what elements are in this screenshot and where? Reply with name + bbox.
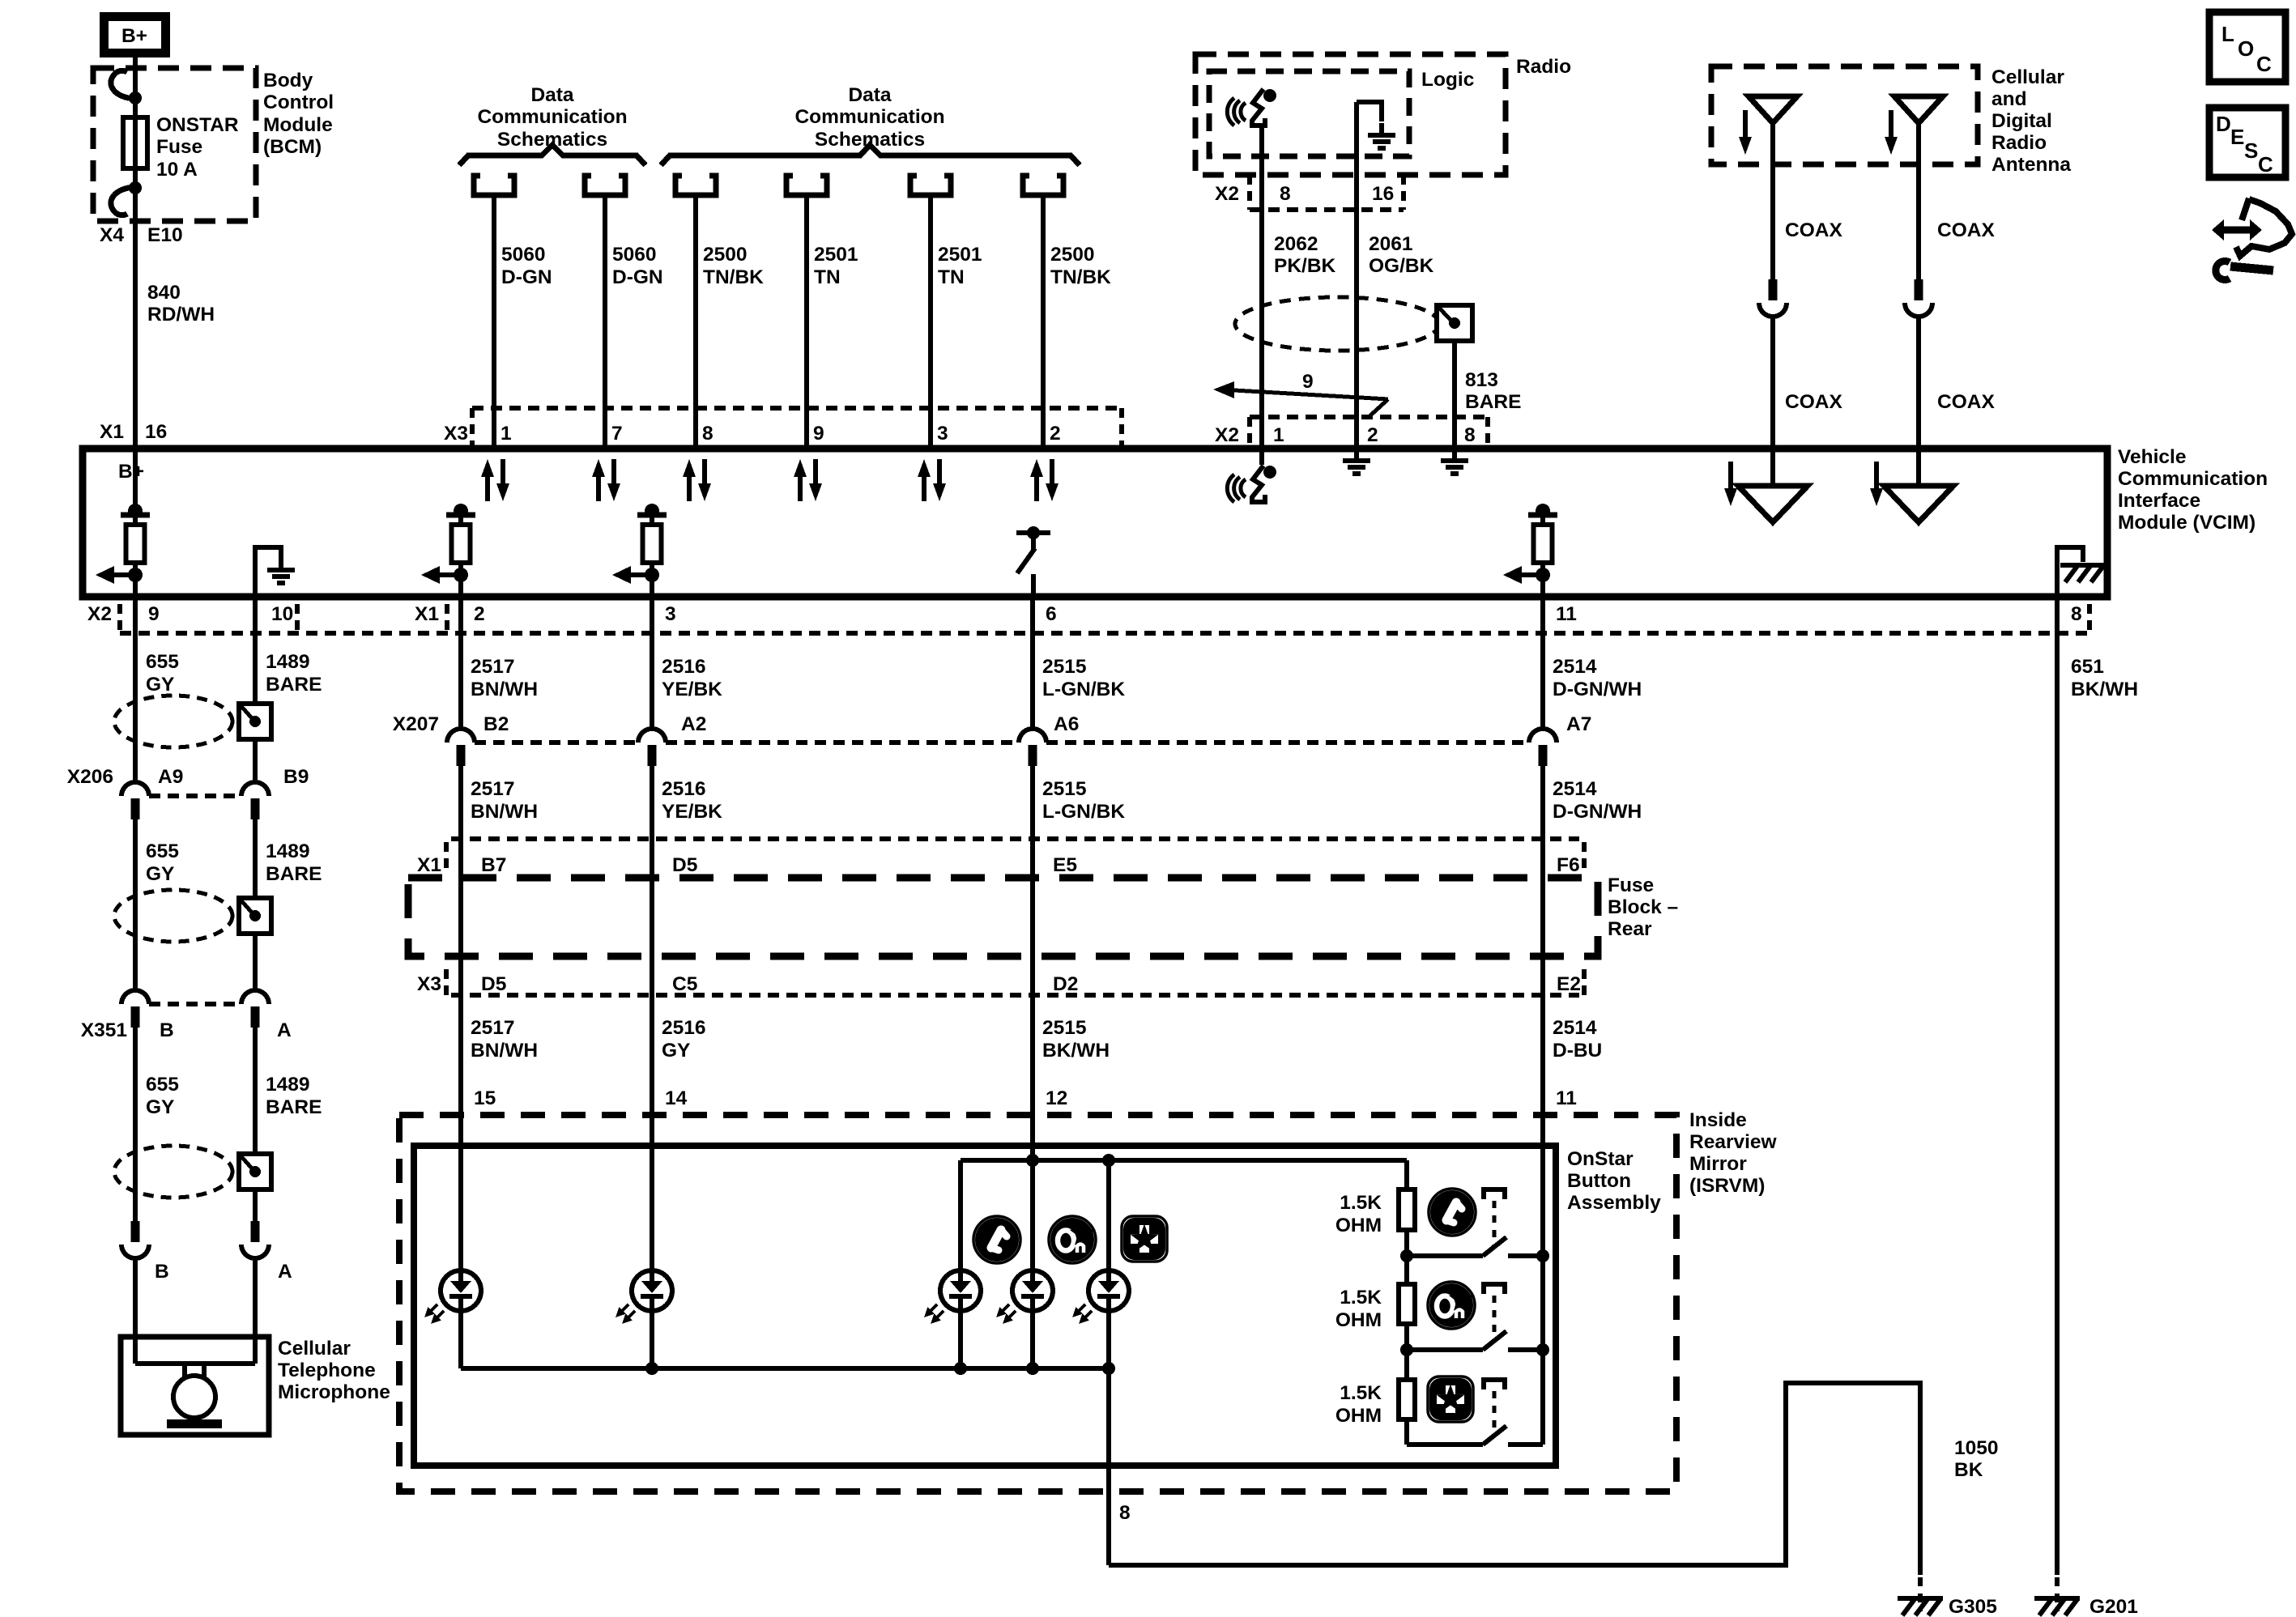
shield with drain 3 xyxy=(114,1146,271,1198)
svg-text:X3: X3 xyxy=(417,973,441,995)
Vehicle Communication Interface Module (VCIM) box xyxy=(83,449,2107,597)
svg-text:BK/WH: BK/WH xyxy=(2071,679,2138,700)
internal resistance with arrow (pin 3 circuit) xyxy=(612,504,667,584)
svg-text:1: 1 xyxy=(1273,424,1284,446)
svg-text:Communication: Communication xyxy=(2118,468,2268,490)
svg-text:GY: GY xyxy=(146,1096,174,1118)
svg-text:9: 9 xyxy=(1302,371,1314,393)
svg-text:8: 8 xyxy=(2071,603,2082,625)
wire 2501 TN (pin 9) xyxy=(804,194,809,449)
svg-text:D5: D5 xyxy=(672,854,697,876)
svg-text:TN/BK: TN/BK xyxy=(1050,266,1111,288)
svg-text:COAX: COAX xyxy=(1937,391,1995,413)
junction above fuse xyxy=(129,91,142,104)
svg-text:Cellular: Cellular xyxy=(278,1338,351,1360)
svg-text:COAX: COAX xyxy=(1785,219,1842,241)
svg-text:2514: 2514 xyxy=(1553,656,1597,678)
inline coax connector 1 xyxy=(1759,279,1787,317)
svg-text:A2: A2 xyxy=(681,713,706,735)
svg-text:GY: GY xyxy=(146,674,174,696)
phone button icon xyxy=(973,1216,1020,1263)
bidirectional arrows CAN 2 xyxy=(1030,459,1059,501)
svg-text:1050: 1050 xyxy=(1954,1437,1999,1459)
bidirectional arrows CAN 8 xyxy=(683,459,711,501)
svg-text:L-GN/BK: L-GN/BK xyxy=(1042,801,1125,823)
svg-text:16: 16 xyxy=(1372,183,1394,205)
svg-text:F6: F6 xyxy=(1557,854,1580,876)
DESC reference box xyxy=(2209,108,2285,177)
svg-text:Body: Body xyxy=(263,70,313,91)
svg-text:10 A: 10 A xyxy=(156,159,198,181)
resistor 1.5K OHM row 3 xyxy=(1399,1380,1415,1419)
wire 2517 BN/WH segment 3 xyxy=(458,995,463,1270)
switch row 3 (emergency) xyxy=(1407,1442,1483,1447)
internal antenna 2 xyxy=(1916,449,1921,486)
svg-text:B7: B7 xyxy=(481,854,506,876)
wire 2501 TN (pin 3) xyxy=(928,194,933,449)
service information icon xyxy=(2212,198,2292,280)
wire 2516 GY segment 3 xyxy=(650,995,654,1270)
svg-text:6: 6 xyxy=(1046,603,1057,625)
svg-text:D: D xyxy=(2216,112,2231,136)
svg-text:1.5K: 1.5K xyxy=(1340,1192,1382,1214)
svg-text:E5: E5 xyxy=(1053,854,1077,876)
ONSTAR Fuse 10 A element xyxy=(123,117,147,168)
svg-text:8: 8 xyxy=(702,423,714,445)
svg-text:C: C xyxy=(2258,152,2273,177)
svg-text:X206: X206 xyxy=(67,766,113,788)
svg-text:9: 9 xyxy=(813,423,824,445)
svg-text:8: 8 xyxy=(1280,183,1291,205)
svg-text:Cellular: Cellular xyxy=(1991,66,2064,88)
svg-text:Data: Data xyxy=(530,84,573,106)
internal chassis ground (pin 8 circuit) xyxy=(2057,547,2083,597)
svg-text:2501: 2501 xyxy=(814,244,858,266)
svg-text:TN/BK: TN/BK xyxy=(703,266,764,288)
svg-text:Digital: Digital xyxy=(1991,110,2052,132)
resistor 1.5K OHM row 1 xyxy=(1399,1189,1415,1230)
wire 655 GY segment 2 xyxy=(133,819,138,990)
svg-text:D-GN: D-GN xyxy=(501,266,552,288)
wire 1489 BARE segment 3 xyxy=(253,1027,258,1221)
svg-text:X1: X1 xyxy=(417,854,441,876)
inline connector X207 xyxy=(475,740,638,745)
microphone lead A xyxy=(253,1258,258,1364)
antenna element 2 xyxy=(1894,96,1943,123)
svg-text:3: 3 xyxy=(665,603,676,625)
microphone symbol inside VCIM xyxy=(1227,466,1276,502)
wire 840 RD/WH to VCIM X1 pin 16 xyxy=(133,224,138,449)
wire 2514 D-BU segment 3 xyxy=(1540,995,1545,1163)
resistor 1.5K OHM row 2 xyxy=(1399,1284,1415,1324)
svg-text:2514: 2514 xyxy=(1553,778,1597,800)
svg-text:BN/WH: BN/WH xyxy=(471,679,538,700)
svg-text:X1: X1 xyxy=(100,421,124,443)
wire 2516 YE/BK segment 1 xyxy=(650,597,654,729)
svg-text:7: 7 xyxy=(611,423,623,445)
svg-text:11: 11 xyxy=(1556,1087,1577,1109)
fuse upper attachment hook xyxy=(111,70,135,99)
fuse block connector X1 boundary xyxy=(451,836,1579,841)
coax 1 lower xyxy=(1770,317,1775,449)
off-page connector CAN 3 xyxy=(910,176,951,195)
svg-text:BK: BK xyxy=(1954,1459,1983,1481)
svg-text:5060: 5060 xyxy=(501,244,546,266)
svg-text:Schematics: Schematics xyxy=(815,129,925,151)
svg-text:2: 2 xyxy=(1050,423,1061,445)
svg-text:A: A xyxy=(278,1261,292,1283)
microphone pigtail connector B xyxy=(121,1221,149,1258)
coax 2 lower xyxy=(1916,317,1921,449)
svg-text:A9: A9 xyxy=(158,766,183,788)
wire 2514 D-GN/WH segment 1 xyxy=(1540,597,1545,729)
svg-text:X4: X4 xyxy=(100,224,124,246)
svg-text:14: 14 xyxy=(665,1087,688,1109)
data communication schematics brace 2 xyxy=(661,145,1080,165)
power symbol B+ box xyxy=(104,17,166,53)
off-page connector CAN 2 xyxy=(786,176,827,195)
svg-text:Rear: Rear xyxy=(1608,918,1652,940)
switch row 1 (phone) xyxy=(1407,1253,1483,1258)
svg-text:1489: 1489 xyxy=(266,651,310,673)
svg-text:Fuse: Fuse xyxy=(1608,874,1654,896)
svg-text:2061: 2061 xyxy=(1369,233,1413,255)
svg-text:Mirror: Mirror xyxy=(1689,1153,1747,1175)
ground lead G305 xyxy=(1918,1577,1923,1611)
svg-text:D2: D2 xyxy=(1053,973,1078,995)
svg-text:X2: X2 xyxy=(87,603,112,625)
ISRVM pin 8 return wire xyxy=(1106,1368,1111,1565)
svg-text:Communication: Communication xyxy=(794,106,944,128)
svg-text:BARE: BARE xyxy=(266,674,322,696)
svg-text:(ISRVM): (ISRVM) xyxy=(1689,1175,1765,1197)
svg-text:Interface: Interface xyxy=(2118,490,2200,512)
microphone lead B xyxy=(133,1258,138,1364)
svg-text:9: 9 xyxy=(148,603,160,625)
svg-text:2515: 2515 xyxy=(1042,656,1087,678)
svg-text:Vehicle: Vehicle xyxy=(2118,446,2186,468)
svg-text:B2: B2 xyxy=(483,713,509,735)
svg-text:2515: 2515 xyxy=(1042,778,1087,800)
svg-text:OG/BK: OG/BK xyxy=(1369,255,1434,277)
svg-text:651: 651 xyxy=(2071,656,2104,678)
svg-text:2517: 2517 xyxy=(471,778,515,800)
Fuse Block - Rear dashed box xyxy=(408,878,1598,956)
Cellular Telephone Microphone box xyxy=(121,1337,269,1435)
bidirectional arrows CAN 9 xyxy=(794,459,822,501)
svg-text:Schematics: Schematics xyxy=(497,129,607,151)
svg-text:C5: C5 xyxy=(672,973,697,995)
svg-text:Radio: Radio xyxy=(1991,132,2047,154)
svg-text:12: 12 xyxy=(1046,1087,1067,1109)
svg-text:2500: 2500 xyxy=(703,244,748,266)
coax 1 upper xyxy=(1770,123,1775,279)
svg-text:D-BU: D-BU xyxy=(1553,1040,1602,1062)
svg-text:1489: 1489 xyxy=(266,840,310,862)
svg-text:X1: X1 xyxy=(415,603,439,625)
svg-text:16: 16 xyxy=(145,421,167,443)
svg-text:840: 840 xyxy=(147,282,181,304)
microphone pigtail connector A xyxy=(241,1221,269,1258)
svg-text:8: 8 xyxy=(1464,424,1476,446)
svg-text:2: 2 xyxy=(1367,424,1378,446)
svg-text:11: 11 xyxy=(1556,603,1577,625)
svg-text:COAX: COAX xyxy=(1937,219,1995,241)
wire 2515 BK/WH segment 3 xyxy=(1030,995,1035,1270)
Inside Rearview Mirror (ISRVM) dashed box xyxy=(399,1115,1676,1491)
internal switch (pin 6 circuit) xyxy=(1016,530,1050,535)
svg-text:BARE: BARE xyxy=(266,863,322,885)
shield drain termination box xyxy=(1437,305,1472,341)
fuse lower attachment hook xyxy=(111,187,135,215)
svg-text:D-GN/WH: D-GN/WH xyxy=(1553,679,1642,700)
svg-text:OHM: OHM xyxy=(1335,1405,1382,1427)
svg-text:X2: X2 xyxy=(1215,183,1239,205)
svg-text:A7: A7 xyxy=(1566,713,1591,735)
svg-text:BARE: BARE xyxy=(1465,391,1521,413)
svg-text:2514: 2514 xyxy=(1553,1017,1597,1039)
LOC reference box xyxy=(2209,12,2285,82)
svg-text:1: 1 xyxy=(501,423,512,445)
wire 1489 BARE segment 1 xyxy=(253,597,258,782)
svg-text:Microphone: Microphone xyxy=(278,1381,390,1403)
Radio dashed box xyxy=(1195,54,1506,175)
svg-text:GY: GY xyxy=(662,1040,690,1062)
svg-text:B: B xyxy=(155,1261,169,1283)
svg-text:D-GN/WH: D-GN/WH xyxy=(1553,801,1642,823)
inline connector X351 xyxy=(149,1002,241,1006)
svg-text:2517: 2517 xyxy=(471,656,515,678)
LED supply bus xyxy=(961,1158,1407,1163)
svg-text:Module: Module xyxy=(263,114,333,136)
svg-text:A6: A6 xyxy=(1054,713,1079,735)
wire 655 GY segment 3 xyxy=(133,1027,138,1221)
svg-text:Logic: Logic xyxy=(1421,69,1474,91)
svg-text:813: 813 xyxy=(1465,369,1498,391)
svg-text:L-GN/BK: L-GN/BK xyxy=(1042,679,1125,700)
VCIM connector X3 boundary xyxy=(472,406,1122,411)
wire 1489 BARE segment 2 xyxy=(253,819,258,990)
resistor ladder feed xyxy=(1404,1160,1409,1189)
internal ground (pin 10 circuit) xyxy=(255,547,281,597)
wire 2517 BN/WH segment 1 xyxy=(458,597,463,729)
Body Control Module (BCM) dashed box xyxy=(93,68,256,221)
VCIM connector X2 boundary (radio side) xyxy=(1250,415,1488,419)
svg-text:G305: G305 xyxy=(1949,1596,1997,1617)
svg-text:Radio: Radio xyxy=(1516,56,1571,78)
svg-text:OHM: OHM xyxy=(1335,1309,1382,1331)
LED indicator 2 xyxy=(616,1270,672,1324)
svg-text:1489: 1489 xyxy=(266,1074,310,1096)
svg-text:X2: X2 xyxy=(1215,424,1239,446)
internal ground (X2 pin 8) xyxy=(1441,449,1468,474)
LED indicator 4 branch xyxy=(1030,1160,1035,1270)
svg-text:B9: B9 xyxy=(283,766,309,788)
svg-text:D5: D5 xyxy=(481,973,506,995)
wire 2516 YE/BK segment 2 xyxy=(650,766,654,995)
svg-text:GY: GY xyxy=(146,863,174,885)
svg-text:OHM: OHM xyxy=(1335,1215,1382,1236)
svg-text:Rearview: Rearview xyxy=(1689,1131,1778,1153)
wire from B+ through ONSTAR fuse xyxy=(133,53,138,224)
shield with drain 2 xyxy=(114,890,271,942)
OnStar button icon xyxy=(1049,1216,1096,1263)
svg-text:Fuse: Fuse xyxy=(156,136,202,158)
svg-text:1.5K: 1.5K xyxy=(1340,1382,1382,1404)
internal resistance with arrow (pin 9 circuit) xyxy=(96,504,150,584)
svg-text:Data: Data xyxy=(848,84,891,106)
fuse block internal wires xyxy=(458,839,463,995)
svg-text:COAX: COAX xyxy=(1785,391,1842,413)
svg-text:2516: 2516 xyxy=(662,778,706,800)
bidirectional arrows CAN 3 xyxy=(918,459,946,501)
ground lead G201 xyxy=(2055,1577,2060,1611)
data communication schematics brace 1 xyxy=(459,145,645,165)
off-page connector serial data 2 xyxy=(585,176,625,195)
switch common line to pin 11 xyxy=(1540,1163,1545,1445)
wire 2500 TN/BK (pin 8) xyxy=(693,194,698,449)
svg-text:2062: 2062 xyxy=(1274,233,1318,255)
svg-text:Control: Control xyxy=(263,91,334,113)
svg-text:E: E xyxy=(2230,125,2244,149)
svg-text:D-GN: D-GN xyxy=(612,266,663,288)
svg-text:RD/WH: RD/WH xyxy=(147,304,215,326)
antenna element 1 xyxy=(1749,96,1797,123)
wire 5060 D-GN (pin 7) xyxy=(603,194,607,449)
Radio Logic dashed box xyxy=(1209,71,1409,156)
svg-text:Antenna: Antenna xyxy=(1991,154,2071,176)
svg-text:B+: B+ xyxy=(118,461,144,483)
svg-text:Assembly: Assembly xyxy=(1567,1192,1661,1214)
svg-text:YE/BK: YE/BK xyxy=(662,679,722,700)
off-page connector serial data 1 xyxy=(474,176,514,195)
svg-text:2515: 2515 xyxy=(1042,1017,1087,1039)
inline connector X206 xyxy=(149,794,241,798)
wire 1050 BK routing xyxy=(1109,1383,1920,1575)
svg-text:E2: E2 xyxy=(1557,973,1581,995)
svg-text:S: S xyxy=(2244,138,2258,163)
svg-text:C: C xyxy=(2256,52,2272,76)
radio logic internal ground xyxy=(1357,102,1382,121)
svg-text:X3: X3 xyxy=(444,423,468,445)
svg-text:2516: 2516 xyxy=(662,1017,706,1039)
LED indicator 3 branch xyxy=(958,1160,963,1270)
svg-text:Inside: Inside xyxy=(1689,1109,1747,1131)
svg-text:YE/BK: YE/BK xyxy=(662,801,722,823)
svg-text:BARE: BARE xyxy=(266,1096,322,1118)
svg-text:Module (VCIM): Module (VCIM) xyxy=(2118,512,2256,534)
svg-text:5060: 5060 xyxy=(612,244,657,266)
bidirectional arrows serial data 1 xyxy=(481,459,509,501)
svg-text:TN: TN xyxy=(814,266,841,288)
svg-text:PK/BK: PK/BK xyxy=(1274,255,1336,277)
svg-text:OnStar: OnStar xyxy=(1567,1148,1634,1170)
svg-text:L: L xyxy=(2221,22,2234,46)
Cellular and Digital Radio Antenna dashed box xyxy=(1711,66,1978,164)
svg-text:B: B xyxy=(160,1019,174,1041)
svg-text:X207: X207 xyxy=(393,713,439,735)
wire 813 BARE drain to VCIM xyxy=(1452,341,1457,449)
inline coax connector 2 xyxy=(1905,279,1932,317)
svg-text:X351: X351 xyxy=(81,1019,127,1041)
internal antenna 1 xyxy=(1770,449,1775,486)
svg-text:Communication: Communication xyxy=(477,106,627,128)
fuse block connector X3 boundary xyxy=(451,993,1579,998)
wire 2515 L-GN/BK segment 1 xyxy=(1030,597,1035,729)
svg-text:2: 2 xyxy=(474,603,485,625)
svg-text:and: and xyxy=(1991,88,2027,110)
wire 2514 D-GN/WH segment 2 xyxy=(1540,766,1545,995)
svg-text:Telephone: Telephone xyxy=(278,1360,376,1381)
wire 5060 D-GN (pin 1) xyxy=(492,194,496,449)
wire 2061 OG/BK radio pin 16 to VCIM xyxy=(1354,102,1359,449)
svg-text:(BCM): (BCM) xyxy=(263,136,322,158)
internal wire B+ feed xyxy=(133,449,138,511)
svg-text:2500: 2500 xyxy=(1050,244,1095,266)
svg-text:ONSTAR: ONSTAR xyxy=(156,114,239,136)
svg-text:655: 655 xyxy=(146,840,179,862)
microphone element xyxy=(135,1361,255,1366)
svg-text:2501: 2501 xyxy=(938,244,982,266)
wire 2517 BN/WH segment 2 xyxy=(458,766,463,995)
svg-text:1.5K: 1.5K xyxy=(1340,1287,1382,1308)
coax 2 upper xyxy=(1916,123,1921,279)
svg-text:BN/WH: BN/WH xyxy=(471,801,538,823)
svg-text:TN: TN xyxy=(938,266,965,288)
switch row 2 (OnStar) xyxy=(1407,1347,1483,1352)
svg-text:G201: G201 xyxy=(2089,1596,2138,1617)
microphone symbol in radio logic xyxy=(1227,89,1276,126)
svg-text:655: 655 xyxy=(146,1074,179,1096)
wire 2500 TN/BK (pin 2) xyxy=(1041,194,1046,449)
bidirectional arrows serial data 7 xyxy=(592,459,620,501)
LED return bus xyxy=(461,1366,1109,1371)
wire 655 GY segment 1 xyxy=(133,597,138,782)
svg-text:E10: E10 xyxy=(147,224,183,246)
svg-text:2516: 2516 xyxy=(662,656,706,678)
OnStar Button Assembly box xyxy=(414,1146,1556,1466)
VCIM bottom harness connector boundary xyxy=(120,631,2089,636)
svg-text:A: A xyxy=(277,1019,292,1041)
internal resistance with arrow (pin 2 circuit) xyxy=(421,504,475,584)
internal ground (X2 pin 2) xyxy=(1343,449,1370,474)
wire 651 BK/WH to ground xyxy=(2055,597,2060,1575)
svg-text:Block –: Block – xyxy=(1608,896,1678,918)
LED indicator 1 xyxy=(424,1270,481,1324)
wire 2062 PK/BK radio pin 8 to VCIM xyxy=(1259,128,1264,449)
emergency button icon xyxy=(1122,1216,1167,1262)
svg-text:15: 15 xyxy=(474,1087,496,1109)
wire 2515 L-GN/BK segment 2 xyxy=(1030,766,1035,995)
svg-text:BN/WH: BN/WH xyxy=(471,1040,538,1062)
svg-text:Button: Button xyxy=(1567,1170,1631,1192)
svg-text:BK/WH: BK/WH xyxy=(1042,1040,1110,1062)
svg-text:655: 655 xyxy=(146,651,179,673)
svg-text:8: 8 xyxy=(1119,1502,1131,1524)
LED indicator 5 branch xyxy=(1106,1160,1111,1270)
svg-text:3: 3 xyxy=(937,423,948,445)
svg-text:2517: 2517 xyxy=(471,1017,515,1039)
off-page connector CAN 1 xyxy=(675,176,716,195)
junction below fuse xyxy=(129,181,142,194)
svg-text:O: O xyxy=(2238,36,2254,61)
svg-text:B+: B+ xyxy=(121,25,147,47)
svg-text:10: 10 xyxy=(271,603,293,625)
radio connector X2 boundary xyxy=(1250,207,1404,212)
off-page connector CAN 4 xyxy=(1023,176,1063,195)
twisted shielded pair xyxy=(1235,297,1439,351)
shield with drain 1 xyxy=(114,696,271,747)
